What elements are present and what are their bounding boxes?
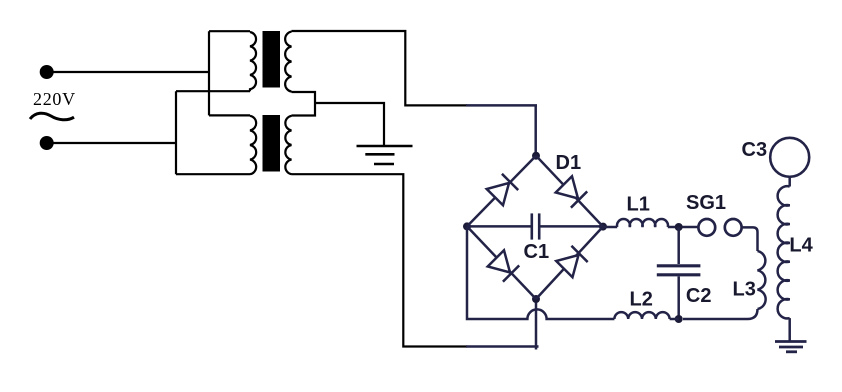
svg-text:L4: L4 (789, 235, 813, 257)
wire input bottom (52, 142, 176, 144)
wire bridge arm bottom-left (467, 226, 536, 299)
svg-text:220V: 220V (33, 89, 76, 109)
svg-text:C3: C3 (742, 139, 768, 161)
transformer T2 core (263, 115, 281, 172)
svg-text:L3: L3 (733, 279, 756, 301)
wire bridge arm top-right (536, 156, 603, 227)
wire T1 secondary top to bridge (292, 31, 468, 105)
wire T1 primary bottom (176, 90, 250, 92)
wire center tap (315, 103, 384, 146)
node bridge top (532, 152, 540, 160)
svg-text:SG1: SG1 (686, 192, 726, 214)
wire L2 to L3 (670, 318, 679, 321)
wire input top (52, 71, 209, 73)
wire C2 bottom (677, 277, 680, 320)
ground center tap (357, 146, 413, 164)
transformer T2 primary winding (250, 116, 256, 174)
spark gap SG1 electrode 1 (698, 219, 715, 236)
wire L3 bottom corner (683, 309, 758, 319)
diode bridge bottom-left (488, 250, 519, 281)
node L1-C2-SG1 junction (675, 223, 683, 231)
wire bridge bottom feed (466, 299, 539, 350)
wire T2 primary top (209, 114, 250, 116)
ground secondary (775, 342, 807, 352)
inductor L1 (617, 219, 668, 227)
wire SG1 to L3 (742, 227, 758, 251)
wire C3 to L4 (788, 177, 791, 187)
spark gap SG1 electrode 2 (725, 219, 742, 236)
wire right node to L1 (603, 226, 617, 229)
node bridge right (599, 223, 607, 231)
wire primary bus B vertical (175, 91, 177, 174)
inductor L3 (758, 251, 766, 309)
node C2-L2 junction (675, 315, 683, 323)
transformer T1 secondary winding (285, 32, 291, 92)
wire T2 primary bottom (176, 173, 250, 175)
diode D1 (bridge top-right) (556, 176, 587, 207)
capacitor C1 (467, 225, 532, 228)
transformer T1 primary winding (250, 32, 256, 91)
inductor L2 (614, 312, 669, 319)
wire bridge arm top-left (467, 156, 536, 227)
wire T2 secondary bottom to bridge bottom (292, 174, 468, 346)
wire C2 top (677, 227, 680, 264)
capacitor C3 topload sphere (770, 138, 809, 177)
wire primary bus A vertical (208, 31, 210, 115)
wire L1 to junction (668, 226, 699, 229)
diode bridge top-left (487, 174, 518, 205)
wire T1 primary top (209, 30, 250, 32)
wire bottom rail from bridge left (467, 226, 614, 319)
node bridge left (463, 222, 471, 230)
inductor L4 (778, 186, 790, 318)
AC tilde symbol (30, 113, 74, 120)
svg-text:C1: C1 (524, 241, 550, 263)
svg-text:C2: C2 (686, 285, 712, 307)
wire bridge arm bottom-right (536, 227, 603, 299)
terminal dot input bottom (40, 136, 54, 150)
diode bridge bottom-right (556, 246, 587, 277)
wire T1 secondary bottom step (292, 92, 316, 116)
wire L4 to ground (788, 318, 791, 341)
wire bridge top feed (466, 104, 537, 155)
svg-text:D1: D1 (556, 152, 582, 174)
svg-text:L1: L1 (627, 194, 650, 216)
capacitor C2 (657, 266, 701, 275)
svg-text:L2: L2 (630, 289, 653, 311)
transformer T1 core (263, 31, 281, 88)
node bridge bottom (532, 295, 540, 303)
transformer T2 secondary winding (285, 116, 291, 174)
terminal dot input top (40, 65, 54, 79)
